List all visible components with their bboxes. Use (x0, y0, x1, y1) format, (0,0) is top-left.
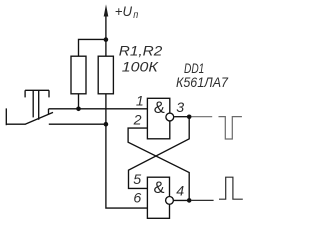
svg-text:R1,R2: R1,R2 (119, 44, 163, 60)
svg-text:3: 3 (176, 100, 184, 116)
svg-text:2: 2 (133, 113, 142, 129)
svg-text:К561ЛА7: К561ЛА7 (176, 75, 229, 91)
svg-text:6: 6 (133, 191, 141, 207)
svg-text:4: 4 (176, 183, 184, 199)
svg-text:п: п (133, 10, 138, 21)
svg-text:5: 5 (133, 172, 141, 188)
svg-text:1: 1 (136, 94, 144, 110)
svg-text:&: & (153, 179, 164, 197)
svg-text:+U: +U (115, 4, 133, 20)
svg-text:100К: 100К (122, 59, 160, 75)
svg-text:&: & (154, 99, 165, 117)
